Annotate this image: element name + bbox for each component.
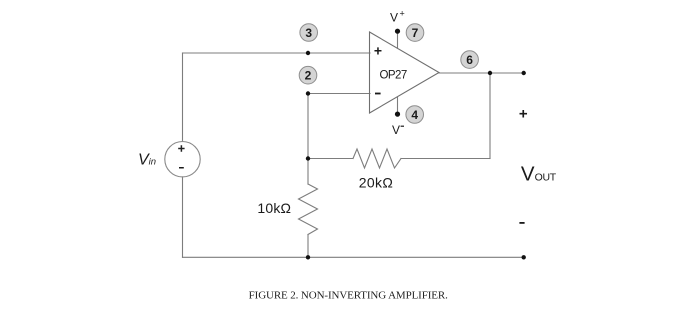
svg-text:4: 4 xyxy=(411,108,418,122)
svg-text:OP27: OP27 xyxy=(379,70,406,82)
svg-text:+: + xyxy=(400,9,405,19)
svg-text:FIGURE 2. NON-INVERTING AMPLIF: FIGURE 2. NON-INVERTING AMPLIFIER. xyxy=(249,289,448,301)
svg-text:3: 3 xyxy=(305,26,312,40)
svg-text:+: + xyxy=(519,106,528,123)
svg-text:20kΩ: 20kΩ xyxy=(359,174,393,190)
svg-text:6: 6 xyxy=(466,53,473,67)
svg-text:2: 2 xyxy=(305,69,312,83)
svg-text:10kΩ: 10kΩ xyxy=(257,200,291,216)
svg-text:7: 7 xyxy=(412,26,419,40)
svg-text:V: V xyxy=(390,11,398,25)
svg-text:V: V xyxy=(392,123,400,137)
svg-text:+: + xyxy=(374,42,382,58)
